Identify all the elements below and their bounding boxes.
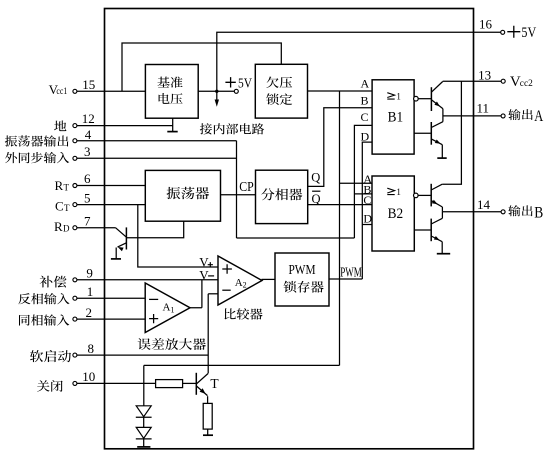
pin 9 number label	[86, 266, 93, 281]
transistor QB2 emitter	[431, 236, 442, 242]
label RD (pin 7)	[54, 219, 70, 234]
pin 4 terminal	[73, 139, 77, 143]
op-amp A1 label	[163, 302, 175, 315]
label 同相输入 (pin 2)	[19, 314, 69, 325]
gate B1 output bubble	[414, 96, 419, 101]
svg-text:1: 1	[171, 305, 175, 314]
svg-text:A: A	[534, 108, 544, 125]
svg-text:9: 9	[86, 266, 93, 281]
transistor QB1 emitter	[431, 200, 442, 207]
label V&#8722; at comparator input	[199, 267, 214, 282]
transistor QA1 collector	[431, 82, 442, 93]
op-amp A1 plus sign	[149, 314, 158, 323]
block U1 reference voltage 基准电压	[145, 65, 198, 119]
pin 2 terminal	[73, 317, 77, 321]
svg-text:A: A	[361, 76, 370, 90]
gate B1 (&#8805;1)	[372, 80, 414, 154]
pin 6 terminal	[73, 184, 77, 188]
transistor QB1 collector	[431, 184, 442, 190]
svg-text:5: 5	[84, 190, 91, 205]
junction dot +5V node	[215, 90, 218, 93]
wire diode branch vertical	[143, 365, 145, 405]
pin 16 terminal	[501, 30, 505, 34]
label 地 (ground pin 12)	[54, 120, 66, 131]
transistor T: base bar	[195, 373, 197, 395]
transistor Q1 emitter	[118, 243, 127, 251]
wire pin 1 inverting input	[77, 297, 146, 299]
block U3 oscillator 振荡器	[145, 170, 220, 221]
diode D2	[136, 427, 152, 439]
svg-text:B: B	[361, 93, 369, 107]
wire Q-bar to B2 input C	[308, 204, 372, 206]
wire UVLO output to B1 input A	[308, 90, 373, 92]
wire pin 9 compensation to comparator V-	[77, 279, 218, 281]
svg-text:PWM: PWM	[289, 263, 316, 278]
svg-text:cc2: cc2	[520, 79, 533, 89]
wire pin 6 RT to oscillator	[77, 185, 146, 187]
pin 5 terminal	[73, 203, 77, 207]
ground symbol at Q1 emitter	[111, 258, 121, 260]
pin 11 number label	[477, 100, 490, 115]
pin 12 number label	[82, 111, 95, 126]
svg-text:4: 4	[85, 127, 92, 142]
gate B1 symbol &#8805;1	[387, 91, 401, 101]
svg-text:T: T	[64, 182, 70, 192]
transistor QB2 collector	[431, 212, 442, 224]
gate B1 name label	[388, 110, 404, 126]
svg-text:B: B	[534, 204, 543, 221]
label PWM net	[340, 265, 362, 280]
wire PWM vertical to B1 input D	[362, 142, 372, 279]
ground symbol under R2	[203, 434, 213, 436]
wire CP oscillator to phase splitter	[221, 194, 256, 196]
wire pin 12 to ground stem	[77, 125, 173, 127]
transistor QA2 base bar	[430, 122, 432, 145]
svg-text:C: C	[55, 198, 64, 213]
transistor T emitter	[196, 386, 207, 396]
resistor R1 shutdown base	[156, 380, 183, 388]
pin 16 number label	[479, 17, 493, 32]
block U5 PWM latch PWM锁存器	[275, 253, 329, 306]
gate B2 (&#8805;1)	[372, 176, 414, 251]
svg-text:11: 11	[477, 100, 490, 115]
label 接内部电路	[200, 123, 264, 134]
wire soft-start vertical	[207, 294, 209, 373]
pin 15 number label	[82, 77, 95, 92]
label 软启动 (pin 8)	[30, 350, 71, 362]
wire Vcc2 vertical to output B collector	[442, 81, 461, 184]
transistor T collector	[196, 373, 208, 384]
transistor Q1 discharge: base bar	[125, 227, 127, 249]
label +5V (pin 16)	[507, 25, 536, 41]
label +5V internal	[225, 77, 252, 92]
svg-text:Q: Q	[311, 170, 320, 184]
gate B2 name label	[388, 206, 404, 222]
ground symbol under reference block	[167, 118, 177, 131]
svg-text:12: 12	[82, 111, 95, 126]
wire R1 to T base	[183, 382, 197, 384]
wire pin 2 non-inverting input	[77, 318, 146, 320]
pin 6 number label	[84, 171, 91, 186]
pin 7 terminal	[73, 226, 77, 230]
wire QB2 emitter to ground	[441, 242, 443, 254]
wire stub to B2 input B	[354, 193, 372, 195]
wire QB1 emitter vertical to output B	[441, 207, 443, 212]
wire pin 15 to reference block	[77, 90, 146, 92]
label Vcc2 (pin 13)	[510, 74, 533, 90]
svg-text:2: 2	[86, 305, 93, 320]
pin 5 number label	[84, 190, 91, 205]
transistor QA2 collector	[431, 122, 443, 128]
gate B2 symbol &#8805;1	[387, 187, 401, 197]
pin 13 number label	[478, 67, 491, 82]
svg-text:A: A	[163, 302, 171, 314]
wire B2 bubble to QB1 base	[418, 194, 431, 196]
label V+ at comparator input	[199, 254, 213, 269]
svg-text:D: D	[63, 223, 70, 233]
ground symbol under diodes	[137, 446, 150, 448]
transistor QA1 base bar	[430, 87, 432, 111]
wire B1 bubble to QA1 base	[418, 98, 431, 100]
gate B2 input label D	[363, 211, 372, 225]
wire T emitter to resistor R2	[207, 396, 209, 403]
svg-text:10: 10	[82, 369, 95, 384]
comparator A2 minus sign	[222, 289, 230, 291]
svg-text:7: 7	[84, 213, 91, 228]
svg-text:14: 14	[477, 197, 491, 212]
pin 14 number label	[477, 197, 491, 212]
svg-text:R: R	[54, 219, 63, 234]
svg-text:D: D	[363, 211, 372, 225]
transistor QA2 emitter	[431, 139, 442, 145]
gate B1 input label D	[361, 130, 370, 144]
wire comparator minus input from soft-start net	[208, 293, 218, 295]
label 反相输入 (pin 1)	[18, 293, 69, 304]
svg-text:1: 1	[396, 187, 401, 197]
wire B2 lower output to QB2 base	[414, 229, 431, 231]
svg-text:A: A	[235, 277, 243, 289]
pin 3 terminal	[73, 156, 77, 160]
pin 15 terminal	[73, 89, 77, 93]
svg-text:15: 15	[82, 77, 95, 92]
pin 9 terminal	[73, 278, 77, 282]
comparator A2 label	[235, 277, 247, 290]
svg-text:PWM: PWM	[340, 265, 362, 280]
label Q-bar output	[312, 191, 321, 206]
wire reference net up-over to UVLO	[122, 43, 281, 91]
svg-text:6: 6	[84, 171, 91, 186]
svg-text:CP: CP	[239, 179, 254, 194]
wire stub to B2 input A	[340, 182, 373, 184]
gate B2 input label A	[363, 172, 372, 186]
wire QA2 emitter to ground	[441, 145, 443, 158]
svg-text:5V: 5V	[238, 77, 252, 92]
label T	[210, 376, 219, 391]
pin 8 number label	[88, 341, 95, 356]
wire CP node down and right	[237, 237, 355, 239]
op-amp A1 error amplifier	[145, 283, 190, 333]
transistor QB1 base bar	[430, 184, 432, 207]
wire pin 7 RD	[77, 227, 116, 229]
label 关闭 (pin 10)	[37, 380, 63, 392]
ground symbol at QA2	[437, 157, 446, 159]
label 振荡器输出 (pin 4)	[5, 135, 69, 146]
IC outline border	[105, 9, 474, 449]
label RT (pin 6)	[55, 178, 70, 193]
svg-text:Q: Q	[312, 192, 321, 206]
label 误差放大器 under A1	[138, 338, 206, 350]
resistor R2 vertical	[203, 403, 212, 429]
wire vertical pin4/pin3 to CP node	[236, 141, 238, 238]
wire A1 output up to compensation net	[190, 280, 202, 308]
ground symbol at QB2	[437, 253, 450, 255]
label 外同步输入 (pin 3)	[5, 152, 69, 163]
wire UVLO net vertical to soft-start rail	[339, 91, 341, 365]
pin 7 number label	[84, 213, 91, 228]
svg-text:B1: B1	[388, 110, 404, 126]
gate B2 input label C	[363, 193, 371, 207]
wire pin 4 oscillator output	[77, 140, 237, 142]
wire +5V output stub from reference	[198, 90, 234, 92]
comparator A2 plus sign	[222, 264, 232, 274]
label 补偿 (pin 9)	[40, 276, 67, 288]
pin 10 number label	[82, 369, 95, 384]
gate B1 input label B	[361, 93, 369, 107]
wire R2 to ground	[207, 429, 209, 435]
wire pin 13 Vcc2	[443, 80, 502, 82]
wire pin 5 CT to oscillator	[77, 204, 146, 206]
svg-text:1: 1	[396, 91, 401, 101]
gate B1 input label C	[361, 110, 369, 124]
pin 2 number label	[86, 305, 93, 320]
svg-text:T: T	[64, 203, 70, 213]
wire A2 output to PWM latch	[262, 278, 276, 280]
block U4 phase splitter 分相器	[256, 170, 308, 223]
pin 1 terminal	[73, 296, 77, 300]
diode D1	[136, 406, 152, 418]
wire pin 10 shutdown	[77, 382, 156, 384]
label Vcc1 (pin 15)	[49, 82, 68, 97]
pin 12 terminal	[73, 124, 77, 128]
node +5V terminal circle	[234, 89, 238, 93]
svg-text:8: 8	[88, 341, 95, 356]
label Q output	[311, 170, 320, 184]
label 输出B (pin 14)	[508, 204, 543, 221]
wire D1 to D2	[143, 417, 145, 427]
label CT (pin 5)	[55, 198, 70, 213]
gate B2 output bubble	[414, 193, 419, 198]
gate B1 input label A	[361, 76, 370, 90]
wire pin 14 output B	[442, 211, 501, 213]
wire Q1 emitter to ground	[115, 248, 117, 259]
label 比较器 under A2	[225, 308, 263, 320]
label CP	[239, 179, 254, 194]
wire CT down to comparator V+	[138, 205, 218, 267]
svg-text:D: D	[361, 130, 370, 144]
wire QA1 emitter / QA2 collector junction vertical	[442, 109, 444, 122]
wire pin 11 output A	[443, 115, 501, 117]
svg-text:T: T	[210, 376, 219, 391]
pin 1 number label	[87, 284, 94, 299]
pin 14 terminal	[501, 210, 505, 214]
wire stub to B2 input D	[362, 224, 372, 226]
wire oscillator bottom to discharge transistor base	[126, 221, 183, 238]
wire blanking vertical to B1 input C	[354, 125, 372, 238]
wire D2 to ground	[143, 439, 145, 447]
svg-text:3: 3	[84, 144, 91, 159]
op-amp A1 minus sign	[149, 298, 158, 300]
pin 8 terminal	[73, 353, 77, 357]
svg-text:13: 13	[478, 67, 491, 82]
pin 3 number label	[84, 144, 91, 159]
svg-text:cc1: cc1	[56, 86, 67, 96]
block U2 undervoltage lockout 欠压锁定	[255, 64, 307, 118]
wire B1 lower output to QA2 base	[414, 132, 431, 134]
svg-text:16: 16	[479, 17, 493, 32]
svg-text:R: R	[55, 178, 64, 193]
svg-text:B2: B2	[388, 206, 404, 222]
pin 13 terminal	[501, 79, 505, 83]
transistor QA1 emitter	[431, 100, 443, 109]
svg-text:2: 2	[243, 280, 247, 289]
wire Q to B1 input B	[308, 108, 372, 187]
pin 4 number label	[85, 127, 92, 142]
comparator A2	[218, 256, 262, 305]
wire pin 16 +5V rail	[217, 32, 501, 100]
pin 11 terminal	[501, 114, 505, 118]
wire PWM latch output	[329, 278, 362, 280]
pin 10 terminal	[73, 381, 77, 385]
svg-text:5V: 5V	[521, 25, 536, 41]
transistor QB2 base bar	[430, 219, 432, 242]
svg-text:1: 1	[87, 284, 94, 299]
wire pin 8 soft start	[77, 354, 209, 356]
gate B2 input label B	[363, 182, 371, 196]
wire pin 3 external sync	[77, 157, 237, 159]
wire soft-start horizontal rail	[144, 364, 340, 366]
svg-text:C: C	[361, 110, 369, 124]
transistor Q1 collector	[116, 228, 127, 238]
arrow to internal circuits	[215, 100, 219, 107]
label 输出A (pin 11)	[508, 108, 543, 125]
